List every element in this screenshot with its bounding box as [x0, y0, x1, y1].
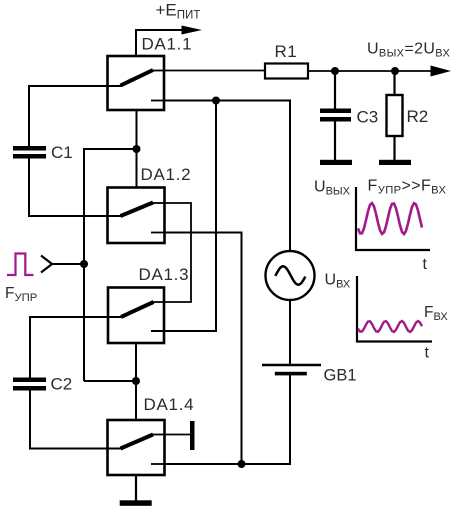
node: bottom rail junction [238, 460, 246, 468]
wire: DA1.2 upper-right to DA1.3 upper-right [153, 203, 191, 302]
svg-text:C3: C3 [357, 108, 379, 127]
wire: DA1.1 lower-right to generator column [164, 101, 290, 252]
wire: DA1.3 bottom pin to DA1.4 top pin [135, 343, 137, 420]
node: control tie on DA1.3-DA1.4 link [132, 377, 140, 385]
node: output junction to R2 [391, 67, 399, 75]
node: junction on DA1.1 lower-right wire [212, 97, 220, 105]
resistor R2 [387, 95, 429, 136]
wire: DA1.4 bottom pin to ground [135, 475, 137, 501]
plot 2 sine waveform [358, 321, 422, 332]
node: output junction to C3 [331, 67, 339, 75]
wire: DA1.4 lower-right along bottom rail to battery [165, 375, 291, 464]
capacitor C2 [13, 375, 72, 394]
wire: control rail to DA1.3-DA1.4 link [84, 380, 136, 382]
generator G1 circle [266, 251, 315, 300]
pulse symbol Fupr [7, 254, 34, 276]
wire: C3 to ground [334, 122, 336, 161]
analog switch DA1.4 [108, 395, 195, 475]
battery GB1 [262, 365, 357, 385]
wire: DA1.2 lower-right down to bottom rail [165, 233, 242, 465]
svg-text:R2: R2 [407, 107, 429, 126]
analog switch DA1.3 [108, 265, 189, 343]
wire: R2 to ground [393, 136, 395, 161]
plot 1 sine waveform [358, 203, 422, 234]
waveform plot 2 axes [357, 276, 432, 342]
wire: output node down to R2 [393, 71, 395, 95]
plot 2 labels [325, 272, 449, 362]
capacitor C1 [13, 143, 73, 162]
svg-text:t: t [425, 345, 430, 362]
wire: C1 bottom to DA1.2 left pin [29, 159, 121, 217]
analog switch DA1.2 [108, 165, 192, 243]
control input chevron [41, 256, 84, 273]
ground under C3 [320, 160, 352, 165]
open terminal bar at DA1.4 upper-right [165, 421, 195, 450]
wire: R1 to output arrow [308, 66, 451, 77]
svg-text:DA1.4: DA1.4 [144, 395, 195, 414]
analog switch DA1.1 [108, 35, 193, 111]
ground under R2 [379, 160, 411, 165]
capacitor C3 [320, 108, 378, 127]
wire: DA1.1 upper-right to R1 [164, 70, 265, 72]
waveform plot 1 axes [356, 187, 430, 250]
wire: C1 top to DA1.1 left pin [29, 86, 121, 146]
ground under DA1.4 [120, 500, 152, 506]
svg-text:t: t [423, 256, 428, 273]
svg-text:DA1.3: DA1.3 [139, 265, 190, 284]
wire: DA1.3 left pin to C2 top [30, 317, 121, 379]
wire: output node down to C3 [334, 71, 336, 109]
svg-text:DA1.1: DA1.1 [142, 35, 193, 54]
node: control tie on DA1.1-DA1.2 link [133, 145, 141, 153]
resistor R1 [265, 42, 308, 79]
svg-text:DA1.2: DA1.2 [141, 165, 192, 184]
wire: generator bottom to battery top [289, 300, 291, 364]
svg-text:C2: C2 [51, 375, 73, 394]
wire: C2 bottom to DA1.4 left pin [30, 391, 121, 449]
power +Epit arrow from DA1.1 top pin [136, 1, 202, 57]
wire: DA1.1 bottom pin to DA1.2 top pin [136, 110, 138, 188]
wire: control rail upper branch [84, 149, 137, 381]
svg-text:GB1: GB1 [324, 367, 357, 385]
wire: junction down to DA1.3 lower-right [151, 101, 216, 332]
svg-text:C1: C1 [51, 143, 73, 162]
svg-text:R1: R1 [275, 42, 298, 61]
plot 1 labels [314, 178, 447, 274]
node: Fupr input junction [80, 260, 88, 268]
